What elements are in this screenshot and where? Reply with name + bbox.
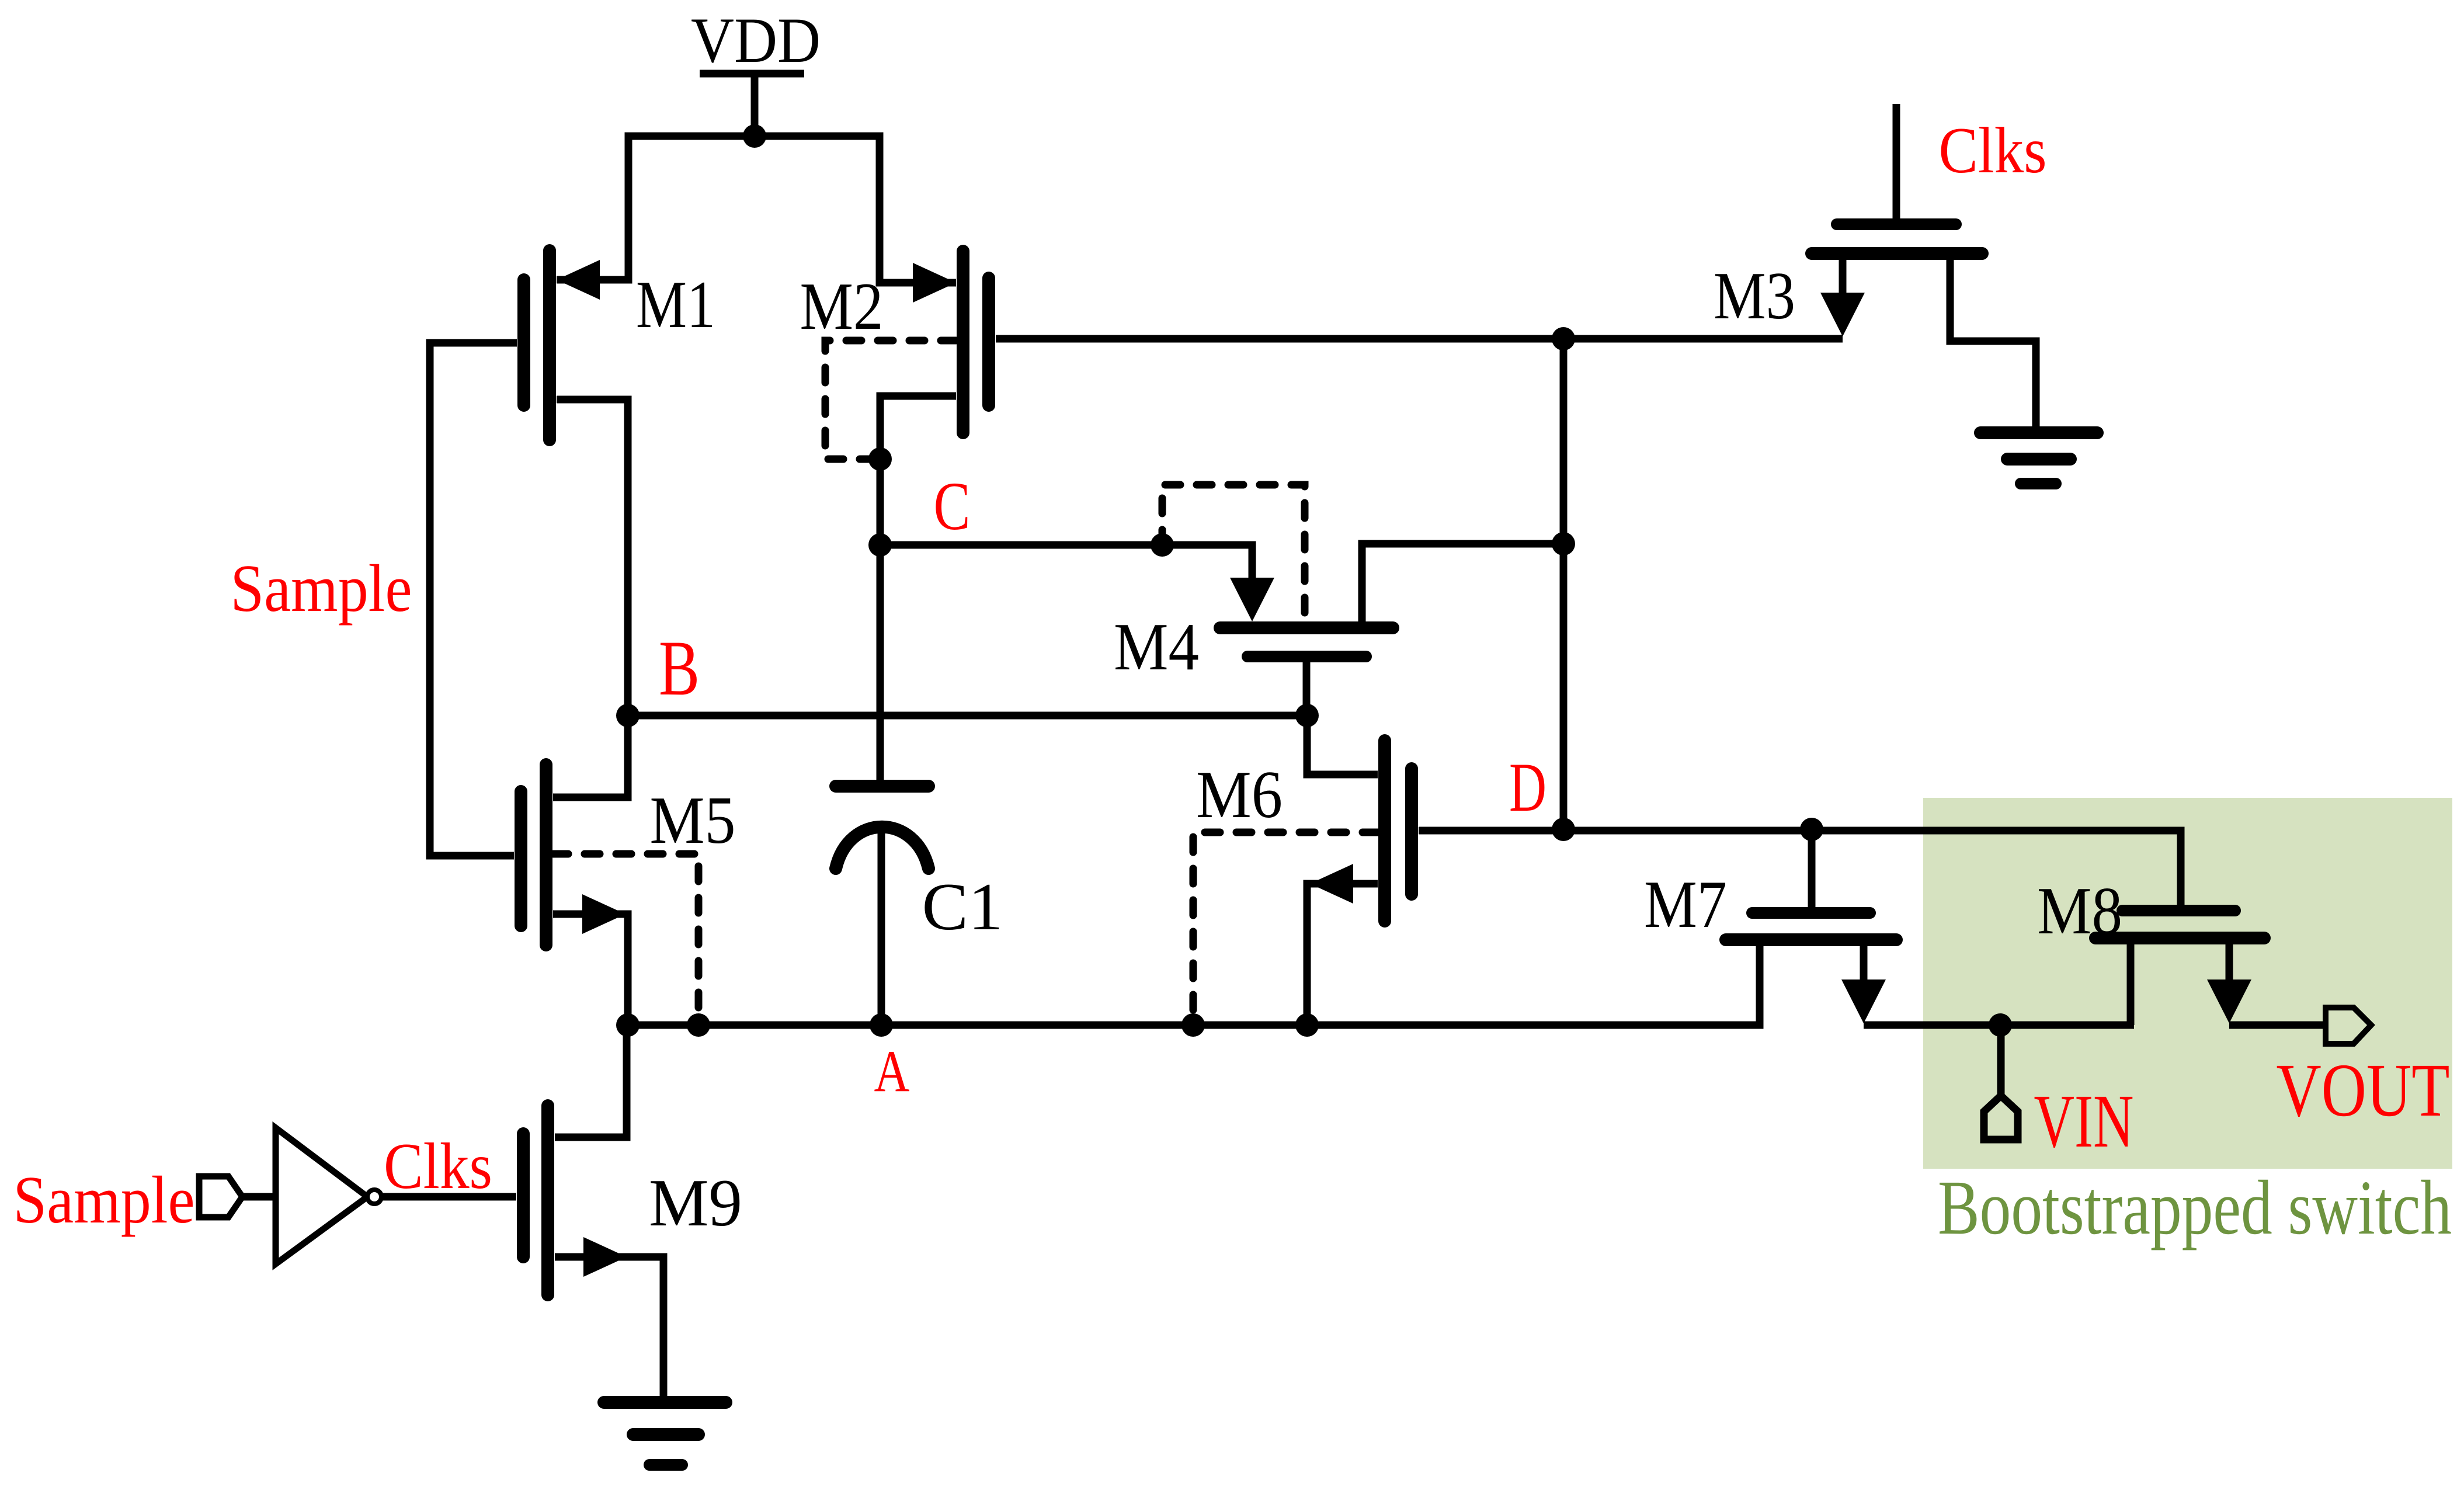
node M2 bulk junction (868, 447, 892, 471)
svg-text:M4: M4 (1114, 610, 1199, 684)
svg-text:M1: M1 (636, 268, 715, 342)
transistor M9 (523, 1025, 742, 1402)
wire M2 gate line to node D riser (1560, 339, 1568, 829)
M7 source stub (1860, 946, 1868, 987)
M6 bulk dashed connection (1193, 832, 1378, 1022)
wire M7 gate to node D (1808, 833, 1816, 907)
M4 bulk dashed connection (1162, 485, 1305, 620)
M6 channel bar (1378, 741, 1391, 921)
svg-text:VDD: VDD (691, 5, 821, 76)
M7 channel bar (1726, 933, 1896, 946)
node A junction (M6 source) (1295, 1013, 1319, 1037)
port VOUT (2326, 1008, 2371, 1044)
C1 curved bottom plate (836, 827, 929, 869)
ground (M9 source) (604, 1402, 726, 1465)
transistor M3 (1714, 104, 2036, 433)
M1 gate bar (517, 280, 530, 405)
M9 source arrow (583, 1237, 627, 1277)
node B-M4-M6 junction (1295, 704, 1319, 727)
transistor M8 (2037, 874, 2264, 1025)
wire M6 gate to node D to M8 gate (1419, 831, 2181, 905)
wire C1 bottom plate to node A (878, 829, 885, 1025)
node M7 gate junction (1800, 818, 1823, 841)
wire node C to M4 drain (880, 545, 1252, 590)
M7 gate bar (1752, 907, 1870, 919)
M3 gate bar (1837, 218, 1956, 230)
svg-text:M3: M3 (1714, 259, 1795, 333)
wire M2 drain down through node C to capacitor C1 (880, 396, 956, 786)
transistor M4 (1114, 544, 1563, 715)
M8 source stub (2226, 944, 2233, 987)
node A junction (M5 bulk) (687, 1013, 710, 1037)
M6 source arrow (1310, 864, 1353, 904)
M2 source arrow (913, 263, 956, 303)
node A junction (M9 drain) (616, 1013, 640, 1037)
M5 channel bar (540, 765, 552, 945)
transistor M1 (524, 251, 715, 797)
VDD power symbol (700, 74, 804, 140)
M3 drain arrow (1820, 293, 1865, 336)
svg-text:B: B (659, 625, 700, 712)
port Sample input (199, 1176, 242, 1217)
wire M4 gate to node B (1303, 662, 1311, 715)
capacitor C1 (836, 786, 1003, 1025)
M7 source arrow (1841, 979, 1886, 1023)
M6 gate bar (1405, 769, 1418, 894)
C1 top plate (836, 780, 929, 793)
port VIN (1984, 1096, 2018, 1140)
M4 channel bar (1220, 621, 1393, 634)
svg-text:Sample: Sample (13, 1163, 195, 1237)
wire M4 source to node D riser (1362, 544, 1563, 621)
svg-text:Bootstrapped switch: Bootstrapped switch (1938, 1164, 2452, 1251)
wire VDD rail (557, 136, 956, 283)
M2 bulk dashed connection (825, 341, 956, 459)
node A junction (M6 bulk) (1181, 1013, 1205, 1037)
bootstrapped switch highlight box (1923, 798, 2452, 1169)
svg-text:M2: M2 (800, 269, 884, 343)
M8 gate bar (2122, 905, 2235, 916)
M1 channel bar (543, 251, 556, 440)
wire VIN stem (1997, 1025, 2005, 1101)
wire Clks to M3 gate (1893, 104, 1900, 224)
node C-M4bulk junction (1151, 533, 1174, 557)
M5 bulk dashed connection (553, 854, 698, 1022)
wire inverter output to M9 gate (383, 1193, 516, 1201)
svg-text:Clks: Clks (1939, 114, 2047, 187)
svg-text:D: D (1509, 748, 1546, 826)
svg-text:C: C (934, 468, 971, 544)
svg-text:VOUT: VOUT (2277, 1048, 2450, 1133)
M3 channel bar (1812, 247, 1982, 260)
M8 channel bar (2095, 932, 2264, 944)
node M2gate-D junction (1552, 327, 1575, 350)
node VIN junction (1989, 1013, 2012, 1037)
svg-text:M7: M7 (1644, 867, 1727, 942)
svg-text:M5: M5 (650, 783, 736, 857)
wire M9 source to ground (555, 1257, 663, 1402)
svg-text:Sample: Sample (231, 551, 412, 626)
svg-text:VIN: VIN (2034, 1079, 2134, 1163)
wire M8 source to VOUT (2229, 1022, 2323, 1029)
svg-text:C1: C1 (922, 870, 1003, 944)
node A junction (C1) (870, 1013, 893, 1037)
transistor M7 (1644, 833, 1896, 1023)
wire port to inverter (242, 1193, 276, 1201)
transistor M6 (1196, 715, 1412, 1025)
node B junction (616, 704, 640, 727)
M4 drain arrow (1230, 578, 1274, 621)
M4 gate bar (1247, 651, 1366, 662)
svg-text:M6: M6 (1196, 758, 1283, 832)
node M4-D junction (1552, 532, 1575, 555)
wire M8 drain to VIN (2127, 944, 2135, 1025)
wire M5 source to node A (553, 914, 628, 1025)
M5 source arrow (582, 894, 625, 934)
inverter U1 (276, 1128, 367, 1264)
M5 gate bar (515, 791, 527, 926)
ground (M3 source) (1980, 433, 2097, 484)
svg-text:M9: M9 (649, 1166, 742, 1240)
node C junction (868, 533, 892, 557)
wire M1 drain to node B to M5 drain (553, 400, 628, 797)
wire M7 source to VIN (1864, 1022, 2134, 1029)
M2 gate bar (982, 278, 995, 405)
wire M6 source to node A (1307, 884, 1378, 1025)
wire M6 drain to node B (1307, 715, 1378, 774)
M9 channel bar (541, 1106, 554, 1295)
M3 drain stub (1839, 260, 1847, 298)
wire node A (628, 946, 1760, 1025)
transistor M5 (521, 765, 736, 1025)
M2 channel bar (957, 251, 969, 433)
node D junction (1552, 818, 1575, 841)
wire M2 gate to M3 drain (996, 335, 1843, 343)
node VDD junction (743, 124, 766, 148)
wire Sample net (M1 gate to M5 gate) (430, 343, 517, 856)
svg-text:Clks: Clks (384, 1130, 492, 1203)
wire node B (628, 712, 1307, 720)
M8 source arrow (2207, 979, 2251, 1023)
svg-text:A: A (874, 1038, 910, 1104)
M1 source arrow (557, 260, 600, 300)
inverter bubble (367, 1190, 381, 1204)
transistor M2 (800, 251, 989, 786)
M9 gate bar (517, 1134, 530, 1257)
svg-text:M8: M8 (2037, 874, 2122, 948)
wire M9 drain to node A (555, 1025, 627, 1137)
wire M3 source to ground (1950, 260, 2036, 433)
